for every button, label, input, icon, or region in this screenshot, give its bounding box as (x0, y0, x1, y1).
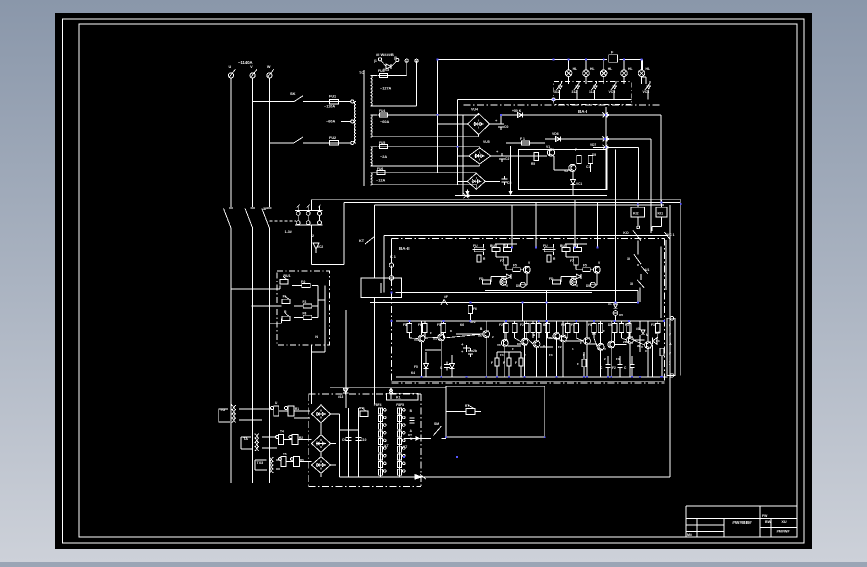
svg-text:FU: FU (473, 244, 478, 248)
svg-text:T4: T4 (280, 430, 284, 434)
svg-text:HL: HL (646, 67, 651, 71)
svg-text:VU: VU (501, 276, 506, 280)
svg-text:F3: F3 (656, 339, 660, 343)
svg-text:F: F (575, 148, 577, 152)
svg-text:VU5: VU5 (483, 140, 490, 144)
svg-text:V6: V6 (497, 343, 501, 347)
svg-text:V9: V9 (549, 336, 553, 340)
svg-text:#: # (669, 352, 671, 356)
svg-text:V: V (250, 65, 253, 69)
svg-text:K4: K4 (411, 371, 415, 375)
svg-text:D5: D5 (516, 284, 520, 288)
svg-text:VU4: VU4 (471, 108, 478, 112)
svg-text:F: F (583, 353, 585, 357)
svg-text:D5: D5 (586, 284, 590, 288)
svg-text:FU6: FU6 (377, 167, 383, 171)
svg-text:V5: V5 (478, 334, 482, 338)
svg-text:(1: (1 (374, 59, 377, 63)
svg-text:#n: #n (608, 302, 612, 306)
svg-text:VD6: VD6 (552, 132, 559, 136)
svg-text:D5: D5 (608, 323, 612, 327)
svg-text:(5: (5 (394, 56, 397, 60)
svg-text:VD7: VD7 (590, 143, 596, 147)
svg-text:F: F (491, 361, 493, 365)
svg-text:BU: BU (490, 244, 495, 248)
svg-text:BU: BU (573, 244, 578, 248)
svg-text:#W#BB#: #W#BB# (732, 520, 752, 526)
svg-text:FU5: FU5 (379, 141, 385, 145)
svg-text:F2: F2 (520, 323, 524, 327)
svg-text:F9: F9 (561, 323, 565, 327)
svg-text:K 1: K 1 (390, 255, 396, 259)
svg-text:KT: KT (403, 445, 407, 449)
svg-text:VC1: VC1 (576, 182, 582, 186)
svg-text:F2: F2 (571, 323, 575, 327)
svg-text:F6: F6 (418, 323, 422, 327)
svg-text:C9: C9 (342, 438, 346, 442)
svg-text:#: # (669, 333, 671, 337)
svg-text:F3: F3 (625, 323, 629, 327)
svg-text:~110A: ~110A (324, 105, 335, 109)
svg-text:F: F (512, 347, 514, 351)
svg-text:V1: V1 (546, 145, 550, 149)
svg-text:FD: FD (479, 277, 484, 281)
svg-text:F.0: F.0 (301, 280, 305, 284)
svg-text:F2: F2 (303, 300, 307, 304)
svg-text:VU: VU (571, 276, 576, 280)
svg-text:B3: B3 (543, 323, 547, 327)
svg-text:R2: R2 (299, 436, 303, 440)
svg-text:C1: C1 (586, 165, 590, 169)
svg-text:112: 112 (589, 90, 595, 94)
svg-text:F5: F5 (583, 264, 587, 268)
svg-text:K1: K1 (396, 396, 401, 400)
svg-text:C5: C5 (507, 181, 511, 185)
svg-text:FU: FU (543, 244, 548, 248)
svg-text:V: V (641, 345, 643, 349)
svg-text:F7: F7 (570, 259, 574, 263)
svg-text:F2: F2 (558, 345, 562, 349)
svg-text:312: 312 (572, 90, 578, 94)
svg-text:HL: HL (573, 67, 578, 71)
svg-text:XU: XU (781, 520, 787, 524)
svg-text:AC: AC (655, 331, 660, 335)
svg-text:SM: SM (434, 422, 439, 426)
svg-text:RT1: RT1 (359, 406, 365, 410)
svg-text:#M#W#: #M#W# (776, 530, 790, 534)
svg-text:K6: K6 (460, 323, 464, 327)
svg-text:FL: FL (283, 295, 287, 299)
svg-text:F8F5: F8F5 (396, 403, 404, 407)
svg-text:V2: V2 (564, 169, 568, 173)
svg-text:~12A: ~12A (376, 179, 385, 183)
svg-text:+50 K: +50 K (512, 109, 522, 113)
svg-text:3P: 3P (263, 207, 268, 211)
svg-text:FW: FW (762, 514, 768, 518)
svg-text:#3: #3 (636, 327, 640, 331)
svg-text:1-3#: 1-3# (285, 230, 292, 234)
svg-text:KS: KS (343, 388, 348, 392)
svg-text:~60A: ~60A (326, 120, 335, 124)
svg-text:BU: BU (560, 244, 565, 248)
svg-text:#F: #F (444, 295, 448, 299)
svg-text:F5: F5 (414, 365, 418, 369)
svg-text:3I: 3I (627, 257, 630, 261)
svg-text:2b: 2b (473, 349, 477, 353)
svg-text:U1: U1 (645, 268, 649, 272)
svg-text:TA: TA (243, 437, 248, 441)
svg-text:2: 2 (312, 234, 314, 238)
svg-text:R5: R5 (531, 162, 535, 166)
svg-text:#13: #13 (338, 395, 344, 399)
svg-text:BU: BU (503, 244, 508, 248)
svg-text:F: F (603, 329, 605, 333)
svg-text:F: F (580, 341, 582, 345)
svg-text:F2: F2 (612, 366, 616, 370)
svg-text:HL: HL (608, 67, 613, 71)
svg-text:W: W (267, 65, 271, 69)
svg-text:~127A: ~127A (380, 87, 392, 91)
svg-text:F8: F8 (403, 323, 407, 327)
svg-text:TU: TU (220, 408, 225, 412)
svg-text:FU1: FU1 (329, 95, 336, 99)
svg-text:F3: F3 (500, 353, 504, 357)
svg-text:F: F (577, 362, 579, 366)
svg-text:~60A: ~60A (380, 120, 389, 124)
svg-text:F3: F3 (616, 357, 620, 361)
svg-text:F3: F3 (549, 353, 553, 357)
svg-text:F2: F2 (499, 323, 503, 327)
svg-text:F5: F5 (588, 323, 592, 327)
svg-text:F5: F5 (513, 264, 517, 268)
svg-text:D5: D5 (592, 153, 596, 157)
svg-text:#I W###B: #I W###B (376, 52, 394, 57)
svg-text:F: F (503, 361, 505, 365)
svg-text:VC 1: VC 1 (667, 233, 675, 237)
svg-text:C2: C2 (505, 157, 509, 161)
svg-text:F 1: F 1 (520, 137, 525, 141)
svg-text:RT: RT (465, 404, 469, 408)
svg-text:FD: FD (549, 277, 554, 281)
svg-text:HL: HL (590, 67, 595, 71)
svg-text:F6: F6 (473, 307, 477, 311)
svg-text:KO: KO (623, 231, 629, 235)
svg-text:FU2: FU2 (329, 136, 336, 140)
svg-text:C10: C10 (361, 438, 367, 442)
svg-text:F: F (515, 361, 517, 365)
svg-text:KI2: KI2 (633, 212, 639, 216)
svg-text:F3: F3 (651, 323, 655, 327)
svg-text:RU1: RU1 (283, 274, 290, 278)
svg-text:BA-II: BA-II (399, 246, 410, 251)
svg-text:F7: F7 (500, 259, 504, 263)
svg-text:VC5: VC5 (609, 90, 616, 94)
svg-text:F8: F8 (303, 312, 307, 316)
svg-text:VC3: VC3 (383, 68, 389, 72)
svg-text:A: A (669, 342, 672, 346)
svg-text:VC2: VC2 (317, 245, 323, 249)
svg-text:4V2: 4V2 (470, 320, 476, 324)
svg-text:K5: K5 (592, 332, 596, 336)
svg-text:F: F (430, 331, 432, 335)
svg-text:M#: M# (687, 533, 692, 537)
svg-text:HL: HL (628, 67, 633, 71)
svg-text:TX3: TX3 (257, 461, 264, 465)
svg-text:M: M (646, 333, 649, 337)
svg-text:T5: T5 (283, 452, 287, 456)
svg-text:V4: V4 (433, 337, 437, 341)
svg-text:BA-I: BA-I (578, 109, 587, 114)
svg-text:KT: KT (384, 444, 388, 448)
svg-text:KT: KT (408, 433, 412, 437)
svg-text:TC: TC (359, 71, 364, 75)
svg-text:K8: K8 (517, 342, 521, 346)
svg-text:U: U (229, 65, 232, 69)
svg-text:V3: V3 (414, 338, 418, 342)
svg-text:F5: F5 (437, 323, 441, 327)
svg-text:FU4: FU4 (379, 109, 385, 113)
svg-text:F8F4: F8F4 (374, 403, 382, 407)
svg-text:KI1: KI1 (658, 212, 664, 216)
svg-text:KT: KT (359, 239, 365, 243)
svg-text:312: 312 (554, 90, 560, 94)
svg-text:~2A: ~2A (380, 155, 387, 159)
svg-text:SK: SK (290, 91, 296, 96)
svg-text:N: N (315, 335, 318, 339)
svg-text:3I: 3I (630, 282, 633, 286)
svg-text:V: V (543, 344, 545, 348)
svg-text:O5: O5 (619, 313, 623, 317)
svg-text:BW: BW (765, 520, 772, 524)
svg-text:V: V (604, 347, 606, 351)
svg-text:R1: R1 (295, 407, 299, 411)
svg-text:C0: C0 (504, 125, 508, 129)
svg-text:W: W (637, 344, 640, 348)
svg-text:VC4: VC4 (643, 90, 650, 94)
svg-text:R5: R5 (300, 458, 304, 462)
